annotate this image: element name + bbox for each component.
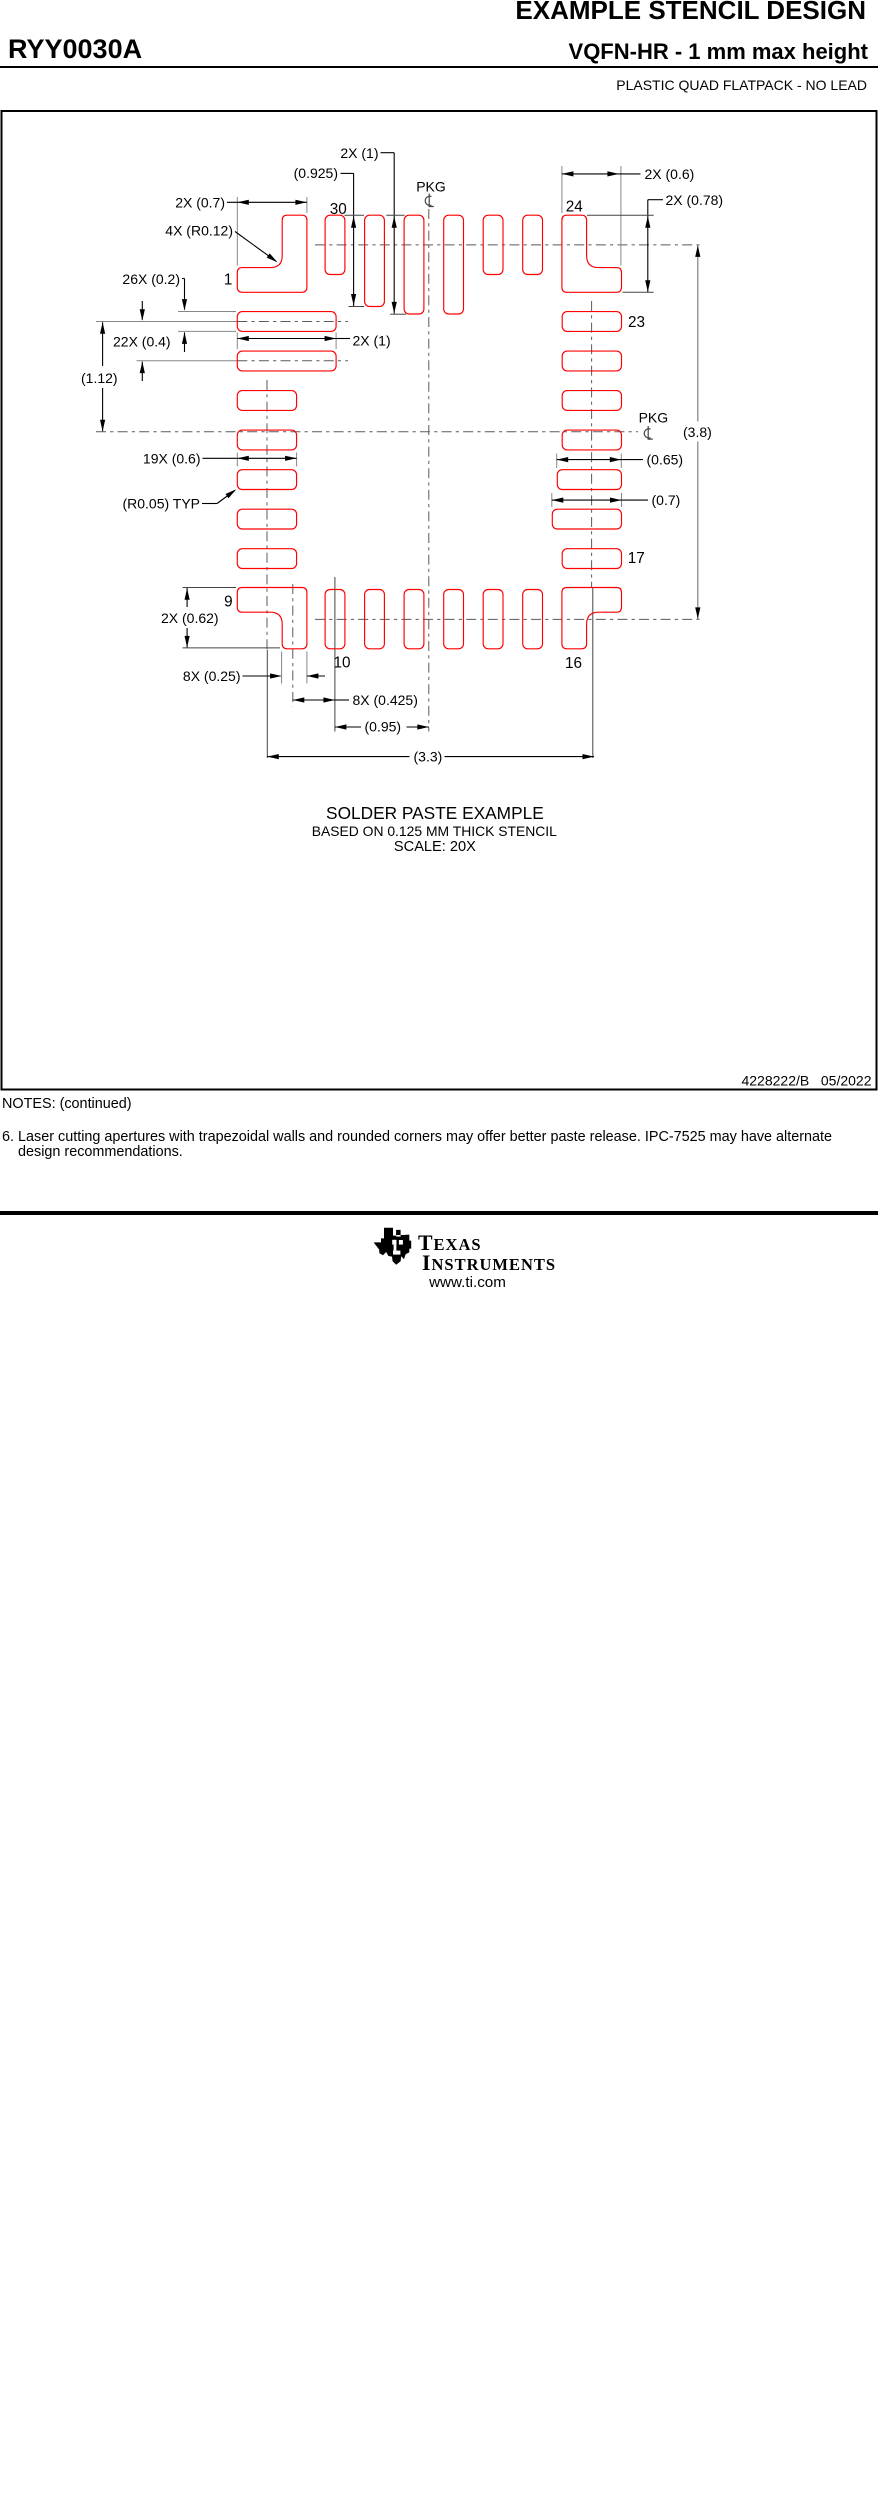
notes heading (2, 1096, 832, 1112)
centerline PKG vertical (428, 209, 430, 732)
L-pad pin 16 (bottom-right) (562, 588, 622, 649)
svg-text:2X (0.78): 2X (0.78) (666, 192, 724, 208)
L-pad pin 1 (top-left) (237, 215, 307, 292)
pad 20 (562, 430, 621, 450)
svg-text:1: 1 (224, 272, 233, 289)
pad 28 (404, 215, 424, 314)
svg-text:(0.65): (0.65) (647, 451, 684, 467)
svg-text:30: 30 (330, 201, 347, 218)
pad 7 (237, 509, 296, 529)
svg-text:BASED ON 0.125 MM THICK STENCI: BASED ON 0.125 MM THICK STENCIL (312, 823, 557, 839)
svg-text:17: 17 (628, 550, 645, 567)
dimension (0.7) (551, 493, 553, 507)
svg-text:(1.12): (1.12) (81, 370, 118, 386)
pad 14 (483, 590, 503, 649)
svg-text:2X (1): 2X (1) (353, 332, 391, 348)
TI wordmark (418, 1231, 482, 1256)
pad 22 (562, 351, 621, 371)
dimension (1.12) (102, 322, 104, 366)
pad 11 (365, 590, 385, 649)
pad 25 (523, 215, 543, 274)
pad 3 (237, 351, 336, 371)
svg-text:4228222/B 05/2022: 4228222/B 05/2022 (741, 1073, 871, 1089)
centerline pad 3 (137, 360, 238, 362)
title EXAMPLE STENCIL DESIGN (515, 0, 866, 26)
svg-text:16: 16 (565, 655, 582, 672)
subtitle2 (616, 77, 867, 93)
pad 29 (365, 215, 385, 306)
pad 23 (562, 312, 621, 332)
dimension 2X (0.7) top-left (236, 197, 238, 266)
svg-text:(3.3): (3.3) (414, 749, 443, 765)
svg-text:PKG: PKG (416, 178, 446, 194)
svg-text:2X (0.6): 2X (0.6) (645, 166, 695, 182)
pad 17 (562, 549, 621, 569)
pad 13 (444, 590, 464, 649)
svg-text:(0.925): (0.925) (294, 165, 338, 181)
svg-text:(3.8): (3.8) (683, 424, 712, 440)
dimension (3.3) (267, 756, 409, 758)
svg-text:23: 23 (628, 314, 645, 331)
svg-text:2X (0.7): 2X (0.7) (175, 194, 225, 210)
pad 19 (557, 470, 621, 490)
extension pad2 top (178, 311, 236, 313)
subtitle VQFN-HR (569, 39, 868, 65)
footer bar (0, 1211, 878, 1215)
svg-text:SOLDER PASTE EXAMPLE: SOLDER PASTE EXAMPLE (326, 803, 544, 823)
pad 27 (444, 215, 464, 314)
pad 5 (237, 430, 296, 450)
dimension (0.95) (335, 726, 361, 728)
dimension 8X (0.425) (293, 699, 335, 701)
TI logo bug (0, 1224, 878, 2512)
pad 10 (325, 590, 345, 649)
pad 21 (562, 391, 621, 411)
dimension 2X (1) left (236, 333, 238, 350)
svg-text:19X (0.6): 19X (0.6) (143, 450, 201, 466)
pad 18 (552, 509, 621, 529)
dimension 2X (0.6) top-right (561, 166, 563, 213)
svg-text:2X (1): 2X (1) (340, 145, 378, 161)
drawing frame (2, 111, 877, 1090)
centerline PKG horizontal (96, 431, 638, 433)
centerline L9 bar (292, 584, 294, 707)
pad 6 (237, 470, 296, 490)
pad 15 (523, 590, 543, 649)
centerline right pad column (591, 301, 593, 587)
svg-text:24: 24 (566, 199, 584, 216)
dimension (3.8) (697, 245, 699, 422)
svg-text:(0.7): (0.7) (652, 492, 681, 508)
pad 12 (404, 590, 424, 649)
svg-text:9: 9 (224, 593, 233, 610)
centerline top pad row (315, 244, 703, 246)
header rule (0, 66, 878, 68)
centerline left pad column (266, 380, 268, 650)
svg-text:2X (0.62): 2X (0.62) (161, 610, 219, 626)
svg-text:10: 10 (334, 654, 351, 671)
L-pad pin 9 (bottom-left) (237, 588, 307, 649)
svg-text:8X (0.25): 8X (0.25) (183, 668, 241, 684)
svg-text:8X (0.425): 8X (0.425) (353, 692, 418, 708)
dimension (0.65) (556, 454, 558, 469)
svg-text:22X (0.4): 22X (0.4) (113, 333, 171, 349)
pad 26 (483, 215, 503, 274)
svg-text:PKG: PKG (639, 409, 669, 425)
svg-text:(R0.05) TYP: (R0.05) TYP (122, 495, 200, 511)
centerline pad 2 (96, 321, 237, 323)
dimension 2X (0.62) (183, 587, 237, 589)
svg-text:4X (R0.12): 4X (R0.12) (165, 223, 233, 239)
pad 8 (237, 549, 296, 569)
footer url (100, 1274, 835, 1291)
dimension 8X (0.25) (281, 652, 283, 684)
pad 30 (325, 215, 345, 274)
extension pad2 bottom (178, 330, 236, 332)
tick top row edge right gap (386, 214, 404, 216)
svg-text:26X (0.2): 26X (0.2) (122, 271, 180, 287)
pad 2 (237, 312, 336, 332)
tick top row edge left gap (344, 214, 364, 216)
part number RYY0030A (8, 34, 142, 65)
svg-text:(0.95): (0.95) (365, 719, 402, 735)
svg-text:SCALE: 20X: SCALE: 20X (394, 839, 476, 855)
extension line pad 10 center (334, 577, 336, 732)
pad 4 (237, 391, 296, 411)
centerline bottom pad row (315, 618, 703, 620)
note 6 (2, 1130, 832, 1161)
dimension 22X (0.4) (141, 301, 143, 320)
L-pad pin 24 (top-right) (562, 215, 622, 292)
